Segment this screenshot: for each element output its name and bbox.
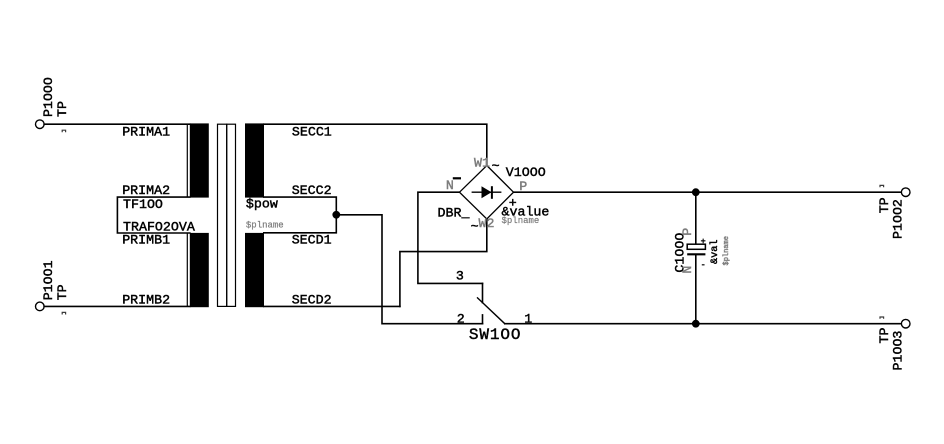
wire PRIMA2 to PRIMB1 (left loop)	[117, 197, 189, 233]
transformer winding bar PRIMA	[190, 123, 209, 197]
transformer winding bar SECD	[245, 233, 264, 307]
svg-text:1: 1	[524, 312, 532, 327]
svg-text:P1OOO: P1OOO	[41, 77, 56, 117]
svg-text:TP: TP	[55, 101, 70, 117]
svg-text:2: 2	[457, 312, 465, 327]
svg-text:SECD1: SECD1	[292, 233, 332, 248]
svg-text:P1OO1: P1OO1	[41, 260, 56, 300]
svg-text:~: ~	[492, 159, 500, 174]
junction dot center tap	[332, 211, 340, 219]
wire bridge P to P1002	[514, 191, 902, 193]
wire P1001 to PRIMB2	[44, 305, 190, 307]
junction dot capacitor top	[692, 188, 700, 196]
wire switch pin 1 to P1003	[505, 323, 902, 325]
svg-text:~: ~	[471, 219, 479, 234]
svg-text:SW1OO: SW1OO	[469, 326, 522, 344]
wire SECC1 to bridge top	[264, 124, 487, 165]
bridge diode symbol	[472, 186, 502, 199]
switch SW100 blade	[478, 298, 505, 324]
svg-text:SECC2: SECC2	[292, 183, 332, 198]
svg-text:N: N	[680, 266, 695, 274]
N minus overline	[453, 177, 461, 179]
svg-text:SECD2: SECD2	[292, 293, 332, 308]
svg-text:$pow: $pow	[246, 197, 278, 212]
svg-text:W1: W1	[474, 155, 490, 170]
wire capacitor bottom lead	[695, 254, 697, 323]
test point P1000 circle	[36, 120, 45, 129]
transformer TF100 left winding edge lines	[186, 124, 188, 306]
svg-text:3: 3	[456, 268, 464, 283]
bridge rectifier V1000 diamond	[460, 166, 514, 220]
transformer winding bar SECC	[245, 123, 264, 197]
wire center tap to switch pin 2	[336, 215, 482, 324]
wire SECD2	[264, 305, 400, 307]
wire SECC2 / SECD1 center tap loop	[264, 197, 337, 233]
transformer core	[218, 124, 236, 306]
test point P1001 circle	[36, 302, 45, 311]
svg-text:SECC1: SECC1	[292, 125, 332, 140]
svg-text:W2: W2	[479, 216, 495, 231]
svg-text:DBR_: DBR_	[438, 206, 470, 221]
svg-text:P1OO3: P1OO3	[891, 331, 906, 371]
junction dot capacitor bottom	[692, 320, 700, 328]
test point P1002 circle	[901, 188, 910, 197]
svg-text:+: +	[701, 236, 706, 246]
wire bridge N to switch pin 3	[418, 192, 483, 283]
tick mark P1002	[880, 185, 884, 187]
svg-text:N: N	[446, 178, 454, 193]
svg-text:$plname: $plname	[502, 216, 540, 226]
switch pin 3 stub	[482, 283, 484, 302]
wire bridge W2 to SECD2	[400, 219, 487, 306]
svg-text:TP: TP	[877, 197, 892, 213]
svg-text:P1OO2: P1OO2	[891, 199, 906, 239]
svg-text:P: P	[680, 228, 695, 236]
transformer winding bar PRIMB	[190, 233, 209, 307]
tick mark P1001	[62, 312, 65, 314]
tick mark P1003	[880, 317, 884, 319]
wire capacitor top lead	[695, 192, 697, 244]
test point P1003 circle	[901, 319, 910, 328]
switch pin 2 tick	[482, 315, 484, 324]
svg-text:PRIMA2: PRIMA2	[122, 183, 170, 198]
svg-text:PRIMB2: PRIMB2	[122, 293, 170, 308]
svg-text:V1OOO: V1OOO	[506, 165, 546, 180]
capacitor C1000 top plate	[687, 244, 705, 249]
svg-text:$plname: $plname	[723, 236, 731, 265]
svg-text:TP: TP	[55, 284, 70, 300]
svg-text:PRIMA1: PRIMA1	[122, 125, 170, 140]
capacitor C1000 bottom plate	[687, 253, 705, 255]
svg-text:PRIMB1: PRIMB1	[122, 233, 170, 248]
svg-text:$plname: $plname	[246, 221, 284, 231]
tick mark P1000	[62, 130, 65, 132]
svg-text:TF1OO: TF1OO	[123, 197, 163, 212]
svg-text:-: -	[701, 260, 706, 270]
svg-text:TP: TP	[877, 328, 892, 344]
svg-text:&val: &val	[709, 240, 721, 264]
wire P1000 to PRIMA1	[44, 123, 190, 125]
svg-text:P: P	[519, 179, 527, 194]
